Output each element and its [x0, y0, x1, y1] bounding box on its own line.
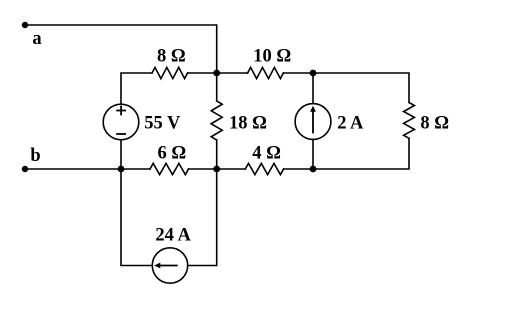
wire left lead of 8-ohm into 55 V branch top	[121, 73, 152, 104]
wire bottom lead of 18-ohm resistor	[216, 140, 218, 169]
svg-text:55 V: 55 V	[144, 114, 181, 134]
wire right lead of 10-ohm resistor	[283, 72, 313, 74]
svg-text:18 Ω: 18 Ω	[229, 114, 267, 134]
svg-text:b: b	[30, 146, 40, 166]
wire left side of 24 A loop	[121, 169, 152, 266]
wire bottom right rail to 8-ohm right branch	[313, 138, 409, 169]
svg-text:8 Ω: 8 Ω	[420, 114, 449, 134]
arrowhead of 24 A source	[154, 263, 160, 269]
junction node b-rail / 2 A branch	[310, 166, 317, 173]
minus sign of 55 V source	[116, 133, 126, 135]
terminal dot b	[22, 166, 28, 172]
wire bottom of 55 V source to node b-rail	[120, 140, 122, 169]
wire right lead of 4-ohm resistor	[284, 168, 313, 170]
wire right side of 24 A loop	[188, 169, 217, 266]
svg-text:a: a	[32, 29, 41, 49]
wire right lead of 8-ohm resistor	[188, 72, 217, 74]
resistor 6 ohm zigzag	[150, 163, 189, 174]
junction node b-rail / 55 V branch	[118, 166, 125, 173]
svg-text:4 Ω: 4 Ω	[252, 144, 281, 164]
wire left lead of 10-ohm resistor	[217, 72, 248, 74]
resistor 8 ohm (right) zigzag	[404, 103, 415, 139]
junction node b-rail / 18-ohm branch	[213, 166, 220, 173]
wire right lead of 6-ohm resistor	[189, 168, 217, 170]
svg-text:10 Ω: 10 Ω	[253, 46, 291, 66]
svg-text:2 A: 2 A	[337, 114, 364, 134]
wire top right rail to 8-ohm right branch	[313, 73, 409, 103]
junction node at top of 18-ohm branch	[213, 70, 220, 77]
current source 2 A circle	[295, 104, 331, 140]
arrow shaft of 24 A source (pointing left)	[160, 265, 178, 267]
arrowhead of 2 A source	[310, 106, 316, 112]
arrow shaft of 2 A source (pointing up)	[312, 111, 314, 134]
wire top rail from terminal a to node at top of 18-ohm branch	[25, 25, 217, 73]
svg-text:6 Ω: 6 Ω	[157, 144, 186, 164]
wire top lead of 2 A source	[312, 73, 314, 104]
wire b rail from terminal b	[25, 168, 121, 170]
resistor 4 ohm zigzag	[245, 163, 283, 174]
voltage source 55 V circle	[103, 104, 139, 140]
wire left lead of 4-ohm resistor	[217, 168, 246, 170]
svg-text:8 Ω: 8 Ω	[157, 46, 186, 66]
terminal dot a	[22, 22, 28, 28]
wire left lead of 6-ohm resistor	[121, 168, 150, 170]
resistor 8 ohm (top left) zigzag	[152, 67, 188, 78]
resistor 10 ohm zigzag	[248, 67, 284, 78]
wire bottom lead of 2 A source	[312, 139, 314, 169]
resistor 18 ohm zigzag	[211, 101, 222, 140]
wire top lead of 18-ohm resistor	[216, 73, 218, 101]
junction node at top of 2 A branch	[310, 70, 317, 77]
svg-text:24 A: 24 A	[155, 226, 191, 246]
current source 24 A circle	[152, 248, 187, 283]
plus sign of 55 V source	[116, 106, 126, 116]
